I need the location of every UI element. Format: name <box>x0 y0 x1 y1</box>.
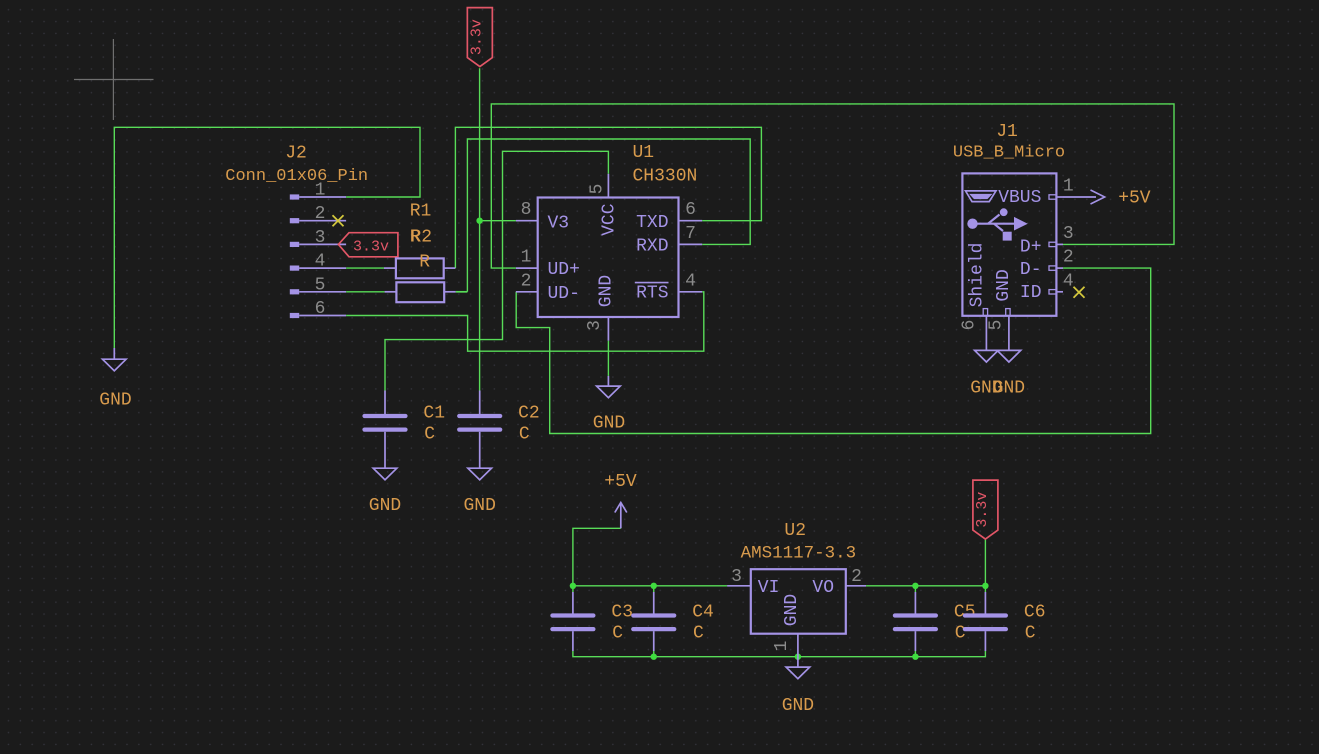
svg-text:3: 3 <box>315 228 326 248</box>
svg-text:U2: U2 <box>784 521 806 541</box>
svg-text:C5: C5 <box>954 603 976 623</box>
svg-text:GND: GND <box>782 594 802 626</box>
svg-text:ID: ID <box>1020 283 1042 303</box>
svg-text:AMS1117-3.3: AMS1117-3.3 <box>741 543 857 563</box>
svg-text:2: 2 <box>1063 248 1074 268</box>
svg-text:1: 1 <box>315 181 326 201</box>
svg-text:GND: GND <box>597 275 617 307</box>
svg-text:D+: D+ <box>1020 238 1042 258</box>
svg-text:3: 3 <box>1063 224 1074 244</box>
svg-text:V3: V3 <box>548 214 570 234</box>
svg-text:6: 6 <box>315 299 326 319</box>
svg-text:C: C <box>424 425 435 445</box>
svg-text:1: 1 <box>1063 177 1074 197</box>
svg-text:J1: J1 <box>996 122 1018 142</box>
svg-text:C: C <box>612 623 623 643</box>
svg-text:2: 2 <box>851 567 862 587</box>
svg-text:3: 3 <box>585 320 605 331</box>
svg-text:+5V: +5V <box>604 472 637 492</box>
svg-text:RXD: RXD <box>636 237 668 257</box>
svg-text:3.3v: 3.3v <box>353 238 389 255</box>
svg-text:1: 1 <box>521 248 532 268</box>
svg-text:+5V: +5V <box>1118 189 1151 209</box>
svg-text:2: 2 <box>521 271 532 291</box>
svg-text:GND: GND <box>369 496 401 516</box>
svg-text:C: C <box>955 623 966 643</box>
svg-text:5: 5 <box>315 275 326 295</box>
svg-text:1: 1 <box>772 641 792 652</box>
svg-text:GND: GND <box>994 269 1014 301</box>
svg-text:C: C <box>519 425 530 445</box>
svg-text:GND: GND <box>463 496 495 516</box>
svg-text:4: 4 <box>315 252 326 272</box>
svg-text:8: 8 <box>521 200 532 220</box>
svg-text:VI: VI <box>758 578 780 598</box>
svg-text:C4: C4 <box>692 603 714 623</box>
svg-text:C6: C6 <box>1024 603 1046 623</box>
svg-text:UD+: UD+ <box>548 260 580 280</box>
svg-text:C1: C1 <box>423 403 445 423</box>
svg-text:R1: R1 <box>410 202 432 222</box>
svg-text:C: C <box>1025 623 1036 643</box>
svg-text:6: 6 <box>960 320 980 331</box>
svg-text:UD-: UD- <box>548 284 580 304</box>
svg-text:D-: D- <box>1020 260 1042 280</box>
svg-text:J2: J2 <box>285 144 307 164</box>
svg-text:6: 6 <box>685 200 696 220</box>
svg-text:USB_B_Micro: USB_B_Micro <box>953 143 1065 162</box>
svg-text:GND: GND <box>99 390 131 410</box>
svg-text:7: 7 <box>685 224 696 244</box>
svg-text:GND: GND <box>782 696 814 716</box>
svg-text:Shield: Shield <box>967 243 987 308</box>
svg-text:3.3v: 3.3v <box>974 492 991 528</box>
svg-text:4: 4 <box>685 271 696 291</box>
svg-text:C2: C2 <box>518 403 540 423</box>
svg-text:Conn_01x06_Pin: Conn_01x06_Pin <box>225 167 368 186</box>
svg-text:VCC: VCC <box>600 203 620 236</box>
svg-text:5: 5 <box>588 184 608 195</box>
svg-text:2: 2 <box>315 204 326 224</box>
svg-text:R: R <box>410 227 421 247</box>
svg-text:GND: GND <box>993 379 1025 399</box>
svg-text:TXD: TXD <box>636 213 668 233</box>
svg-text:U1: U1 <box>633 143 655 163</box>
svg-text:R: R <box>419 253 430 273</box>
svg-text:4: 4 <box>1063 271 1074 291</box>
svg-text:C3: C3 <box>611 603 633 623</box>
svg-text:VO: VO <box>812 578 834 598</box>
svg-text:RTS: RTS <box>636 284 668 304</box>
svg-text:VBUS: VBUS <box>998 188 1041 208</box>
svg-text:C: C <box>693 623 704 643</box>
svg-text:3: 3 <box>731 567 742 587</box>
svg-text:GND: GND <box>593 414 625 434</box>
svg-text:5: 5 <box>986 320 1006 331</box>
svg-text:CH330N: CH330N <box>633 167 698 187</box>
svg-text:3.3v: 3.3v <box>468 19 485 55</box>
